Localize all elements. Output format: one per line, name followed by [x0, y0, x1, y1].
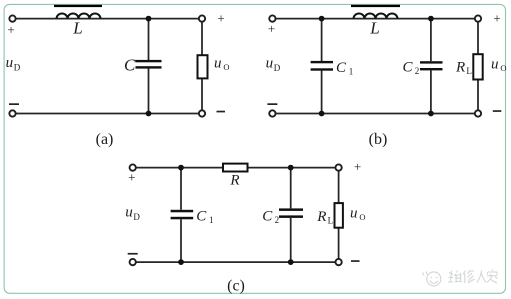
svg-text:(b): (b) — [369, 131, 388, 148]
terminal top-left (c) — [130, 164, 136, 170]
capacitor C2 (b) — [420, 61, 443, 63]
svg-text:D: D — [274, 63, 281, 73]
wire C2 branch (c) — [290, 168, 292, 209]
node junction top (a) — [146, 16, 152, 22]
node junction top-1 (c) — [178, 165, 184, 171]
minus bar right (c) — [351, 260, 360, 262]
inductor L (a) — [57, 14, 101, 19]
node junction top-2 (b) — [428, 16, 434, 22]
svg-text:u: u — [6, 55, 14, 71]
svg-text:C: C — [196, 209, 207, 225]
wire bottom (b) — [276, 113, 475, 115]
node junction bottom-1 (b) — [319, 111, 325, 117]
wire C1 branch (b) — [321, 19, 323, 61]
svg-text:(c): (c) — [227, 278, 245, 295]
svg-text:(a): (a) — [96, 131, 114, 148]
svg-text:O: O — [223, 62, 229, 72]
svg-text:+: + — [354, 159, 361, 174]
svg-text:R: R — [316, 209, 326, 225]
capacitor C (a) — [136, 60, 162, 62]
svg-text:u: u — [491, 56, 499, 72]
node junction bottom-1 (c) — [178, 259, 184, 265]
wire top (a) — [16, 18, 199, 20]
svg-text:C: C — [336, 60, 347, 76]
wire top (b) — [276, 18, 475, 20]
wire top (c) — [136, 167, 335, 169]
terminal top-right (c) — [335, 164, 341, 170]
svg-text:u: u — [125, 205, 133, 221]
svg-text:R: R — [229, 172, 239, 188]
node junction bottom-2 (b) — [428, 111, 434, 117]
load resistor RL box (c) — [335, 203, 343, 228]
wire C1 branch (c) — [180, 168, 182, 210]
svg-text:O: O — [500, 63, 506, 73]
svg-text:+: + — [493, 10, 500, 25]
inductor L (b) — [354, 14, 398, 19]
svg-text:L: L — [328, 215, 334, 225]
minus bar right (b) — [493, 110, 502, 112]
svg-text:R: R — [455, 60, 465, 76]
node junction top-2 (c) — [288, 165, 294, 171]
terminal bottom-left (b) — [269, 110, 275, 116]
wire bottom (a) — [16, 113, 199, 115]
minus bar left (a) — [9, 103, 19, 105]
node junction bottom-2 (c) — [288, 259, 294, 265]
wire capacitor C branch (a) — [148, 19, 150, 61]
svg-text:C: C — [403, 60, 414, 76]
svg-text:u: u — [266, 55, 274, 71]
capacitor C1 (b) — [311, 61, 333, 63]
wire C2 branch (b) — [430, 19, 432, 62]
terminal top-left (a) — [9, 15, 15, 21]
core bar above L (a) — [54, 5, 102, 7]
terminal top-right (a) — [199, 15, 205, 21]
wire RL branch (b) — [477, 22, 479, 54]
core bar above L (b) — [351, 5, 400, 7]
svg-text:+: + — [7, 22, 14, 37]
terminal top-left (b) — [269, 15, 275, 21]
svg-text:L: L — [466, 66, 472, 76]
wire RL branch (c) — [338, 171, 340, 203]
svg-text:L: L — [72, 18, 82, 37]
svg-text:D: D — [14, 63, 21, 73]
svg-text:O: O — [359, 212, 365, 222]
minus bar left (c) — [128, 253, 138, 255]
terminal bottom-left (c) — [130, 259, 136, 265]
watermark icon — [423, 272, 441, 286]
svg-text:C: C — [124, 56, 136, 75]
svg-text:D: D — [133, 212, 140, 222]
minus bar left (b) — [267, 103, 277, 105]
svg-text:1: 1 — [209, 215, 214, 225]
load resistor box (a) — [198, 55, 208, 78]
wire load branch (a) — [201, 22, 203, 55]
terminal bottom-right (c) — [335, 259, 341, 265]
svg-text:+: + — [268, 21, 275, 36]
terminal bottom-right (a) — [199, 110, 205, 116]
svg-text:u: u — [214, 56, 222, 72]
svg-text:2: 2 — [275, 215, 280, 225]
svg-text:u: u — [350, 206, 358, 222]
svg-text:+: + — [217, 10, 224, 25]
node junction bottom (a) — [146, 111, 152, 117]
capacitor C2 (c) — [279, 208, 303, 211]
load resistor RL box (b) — [473, 54, 482, 79]
svg-text:C: C — [262, 208, 273, 224]
node junction top-1 (b) — [319, 16, 325, 22]
svg-text:L: L — [369, 18, 379, 37]
minus bar right (a) — [217, 111, 226, 113]
watermark text 维修人家 — [448, 270, 498, 284]
capacitor C1 (c) — [171, 210, 194, 213]
terminal bottom-left (a) — [9, 110, 15, 116]
wire bottom (c) — [136, 261, 335, 263]
terminal top-right (b) — [475, 15, 481, 21]
series resistor R box (c) — [223, 164, 248, 172]
svg-text:+: + — [128, 170, 135, 185]
svg-text:2: 2 — [415, 66, 420, 76]
svg-text:1: 1 — [349, 67, 354, 77]
terminal bottom-right (b) — [475, 110, 481, 116]
